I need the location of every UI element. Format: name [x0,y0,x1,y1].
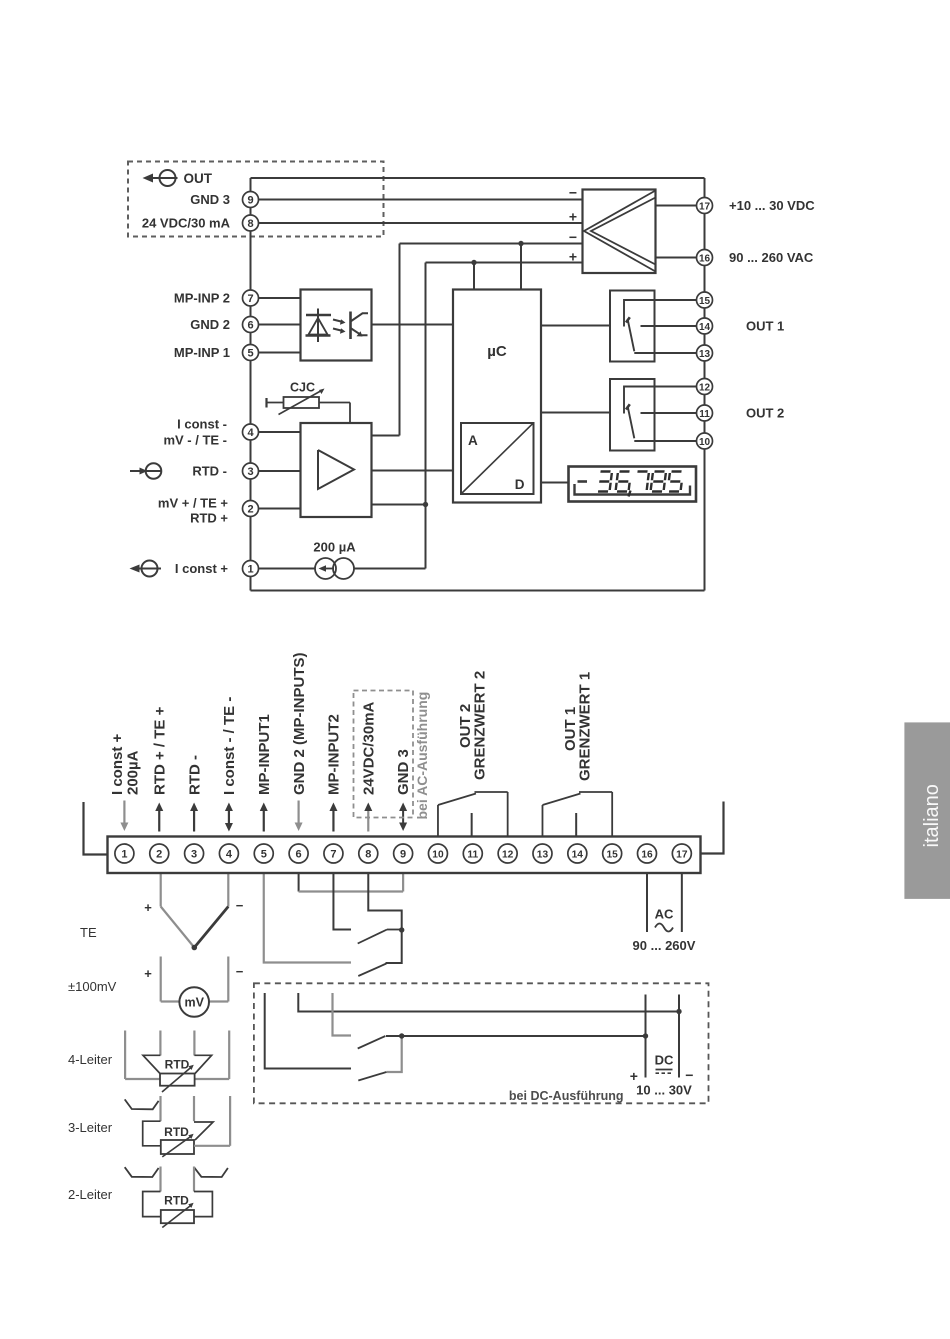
svg-text:90 ... 260 VAC: 90 ... 260 VAC [729,250,814,265]
svg-text:2: 2 [247,504,253,516]
svg-text:−: − [236,898,244,913]
svg-text:4: 4 [247,427,254,439]
svg-text:17: 17 [699,201,711,212]
svg-text:RTD: RTD [165,1058,190,1072]
svg-text:µC: µC [487,343,507,360]
svg-text:A: A [468,433,478,448]
svg-text:200 µA: 200 µA [313,540,356,555]
svg-text:3: 3 [191,849,197,861]
svg-text:13: 13 [537,850,549,861]
svg-text:12: 12 [699,382,711,393]
svg-text:14: 14 [572,850,584,861]
svg-text:RTD -: RTD - [186,755,203,795]
svg-text:I const -: I const - [177,417,227,432]
svg-text:mV: mV [184,996,204,1010]
svg-text:5: 5 [247,348,253,360]
svg-text:15: 15 [699,296,711,307]
svg-text:9: 9 [247,195,253,207]
svg-text:+: + [144,900,152,915]
svg-text:GRENZWERT 2: GRENZWERT 2 [472,671,489,780]
svg-text:8: 8 [247,218,253,230]
svg-text:10: 10 [699,437,711,448]
svg-text:−: − [569,229,577,245]
svg-text:CJC: CJC [290,381,315,395]
svg-text:OUT 1: OUT 1 [746,319,784,334]
svg-text:15: 15 [606,850,618,861]
svg-text:MP-INPUT2: MP-INPUT2 [326,714,343,795]
svg-text:4-Leiter: 4-Leiter [68,1052,113,1067]
svg-text:RTD + / TE +: RTD + / TE + [151,706,168,795]
svg-text:11: 11 [699,409,710,420]
svg-text:OUT 2: OUT 2 [746,406,784,421]
svg-text:+: + [144,966,152,981]
svg-text:9: 9 [400,849,406,861]
svg-text:RTD: RTD [164,1125,189,1139]
svg-text:16: 16 [699,253,711,264]
svg-text:4: 4 [226,849,233,861]
svg-text:3: 3 [247,466,253,478]
svg-text:RTD -: RTD - [192,464,227,479]
svg-text:RTD: RTD [164,1194,189,1208]
svg-text:MP-INP 2: MP-INP 2 [174,291,230,306]
svg-text:7: 7 [247,293,253,305]
svg-text:MP-INPUT1: MP-INPUT1 [256,714,273,795]
svg-text:24 VDC/30 mA: 24 VDC/30 mA [142,216,231,231]
svg-text:bei DC-Ausführung: bei DC-Ausführung [509,1089,624,1103]
svg-text:2: 2 [156,849,162,861]
svg-text:16: 16 [641,850,653,861]
svg-text:11: 11 [467,850,478,861]
svg-text:1: 1 [121,849,127,861]
svg-text:7: 7 [330,849,336,861]
svg-text:6: 6 [247,320,253,332]
svg-text:10: 10 [432,850,444,861]
svg-text:12: 12 [502,850,514,861]
svg-text:AC: AC [655,907,674,922]
svg-text:−: − [685,1067,693,1083]
svg-text:GND 2: GND 2 [190,317,230,332]
svg-text:OUT: OUT [184,171,213,186]
svg-text:GND 2 (MP-INPUTS): GND 2 (MP-INPUTS) [291,652,308,795]
svg-text:24VDC/30mA: 24VDC/30mA [360,701,377,795]
svg-text:mV - / TE -: mV - / TE - [163,433,227,448]
svg-text:GND 3: GND 3 [395,749,412,795]
svg-text:6: 6 [296,849,302,861]
svg-text:5: 5 [261,849,267,861]
svg-text:TE: TE [80,925,97,940]
svg-text:italiano: italiano [921,784,943,847]
svg-text:I const - / TE -: I const - / TE - [221,697,238,795]
svg-text:10 ... 30V: 10 ... 30V [636,1083,692,1098]
svg-text:1: 1 [247,564,253,576]
svg-text:mV + / TE +: mV + / TE + [158,496,228,511]
svg-text:+: + [569,209,577,225]
svg-text:I const +: I const + [109,733,126,795]
svg-text:17: 17 [676,850,688,861]
svg-text:±100mV: ±100mV [68,979,117,994]
svg-text:D: D [515,477,525,492]
svg-text:bei AC-Ausführung: bei AC-Ausführung [414,692,430,820]
svg-text:−: − [236,964,244,979]
svg-text:GND 3: GND 3 [190,192,230,207]
svg-text:13: 13 [699,349,711,360]
svg-text:MP-INP 1: MP-INP 1 [174,345,230,360]
svg-text:200µA: 200µA [125,750,142,795]
svg-text:−: − [569,185,577,201]
svg-text:2-Leiter: 2-Leiter [68,1187,113,1202]
svg-text:RTD +: RTD + [190,511,228,526]
svg-text:90 ... 260V: 90 ... 260V [633,938,696,953]
svg-text:+10 ... 30 VDC: +10 ... 30 VDC [729,198,815,213]
svg-text:I const +: I const + [175,561,229,576]
svg-text:8: 8 [365,849,371,861]
svg-text:DC: DC [655,1053,674,1068]
svg-text:+: + [569,249,577,265]
svg-text:GRENZWERT 1: GRENZWERT 1 [577,672,594,781]
svg-text:14: 14 [699,322,711,333]
svg-text:3-Leiter: 3-Leiter [68,1120,113,1135]
